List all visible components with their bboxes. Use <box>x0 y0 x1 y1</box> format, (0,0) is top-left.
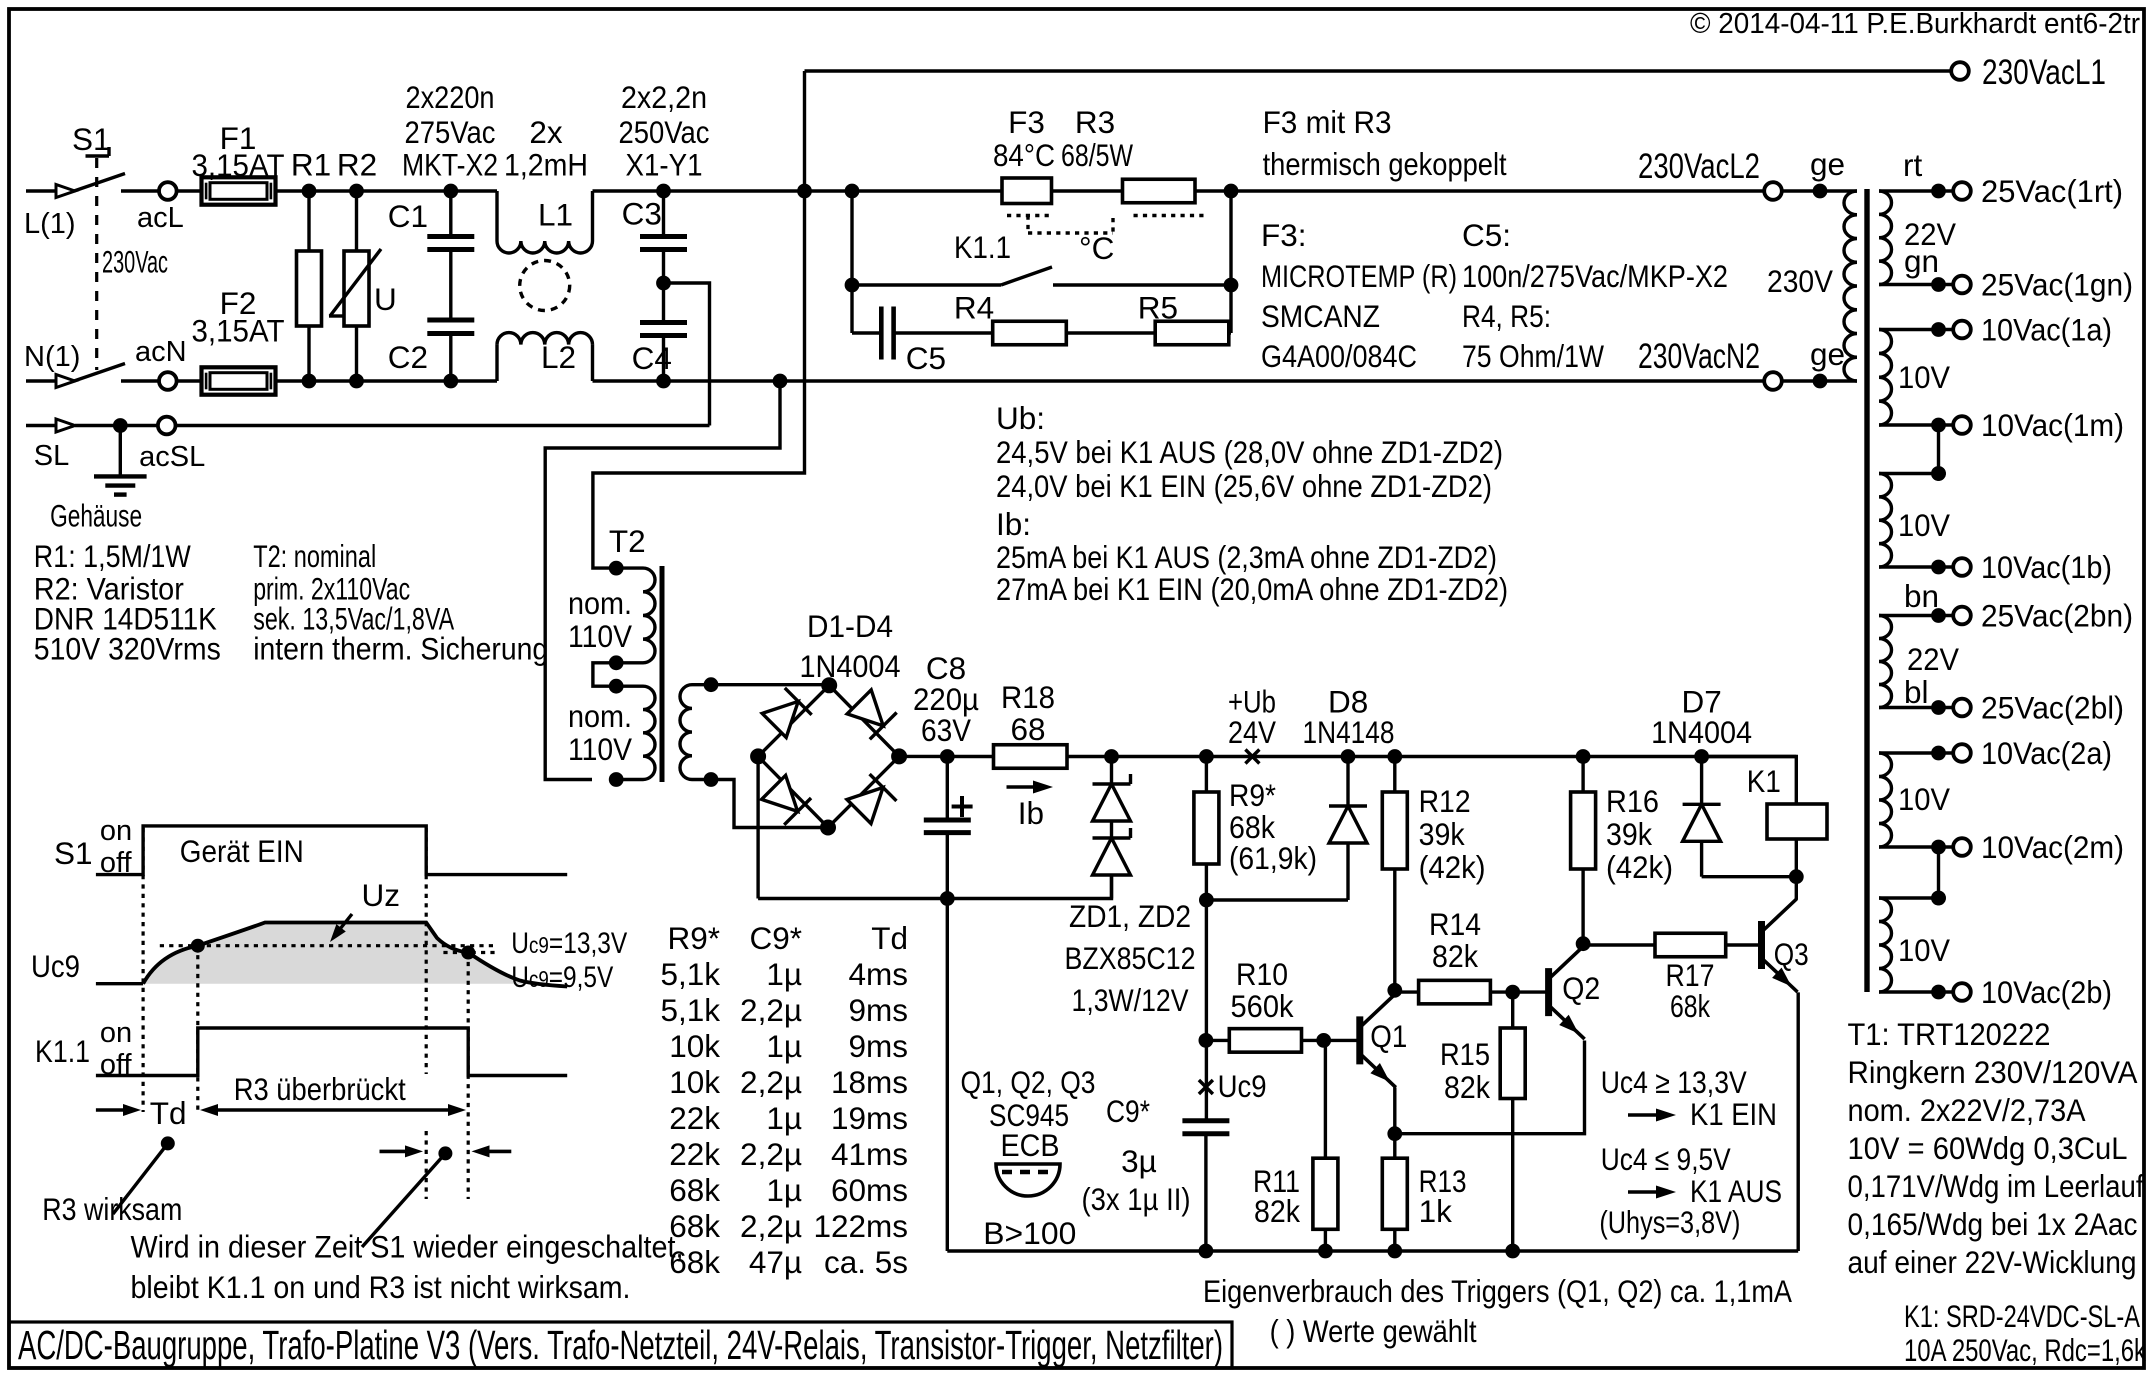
svg-text:R18: R18 <box>1001 679 1055 715</box>
svg-text:10Vac(2m): 10Vac(2m) <box>1981 829 2124 865</box>
junction R15 bottom <box>1505 1244 1520 1259</box>
svg-text:R16: R16 <box>1606 783 1659 819</box>
svg-text:R4, R5:: R4, R5: <box>1462 298 1551 334</box>
svg-text:Ib:: Ib: <box>996 506 1031 542</box>
junction R2 bottom <box>349 374 364 389</box>
wire Q2 collector up <box>1581 944 1584 948</box>
wire F1 to R1 <box>276 189 310 192</box>
svg-text:R14: R14 <box>1429 906 1481 942</box>
junction T2 sec top <box>704 677 719 692</box>
inductor L1 <box>497 191 593 253</box>
junction bridge top <box>821 677 837 693</box>
diode D7 <box>1651 684 1796 877</box>
svg-text:230Vac: 230Vac <box>102 244 168 280</box>
svg-text:D1-D4: D1-D4 <box>807 608 893 644</box>
junction K1.1 left <box>845 278 860 293</box>
svg-text:R1: R1 <box>291 146 331 182</box>
transformer T2 core <box>660 566 665 782</box>
svg-text:82k: 82k <box>1254 1193 1300 1229</box>
svg-text:10V: 10V <box>1898 359 1950 395</box>
junction T1 primary bottom <box>1813 374 1828 389</box>
wire tap 1m <box>1937 425 1940 474</box>
timing dotted guide 3b <box>425 1131 428 1199</box>
text block T2 data <box>253 538 548 667</box>
wire bridge plus to R18 <box>899 755 993 758</box>
svg-text:100n/275Vac/MKP-X2: 100n/275Vac/MKP-X2 <box>1462 258 1728 294</box>
svg-text:K1: K1 <box>1747 763 1781 799</box>
wire node A down <box>1205 900 1208 1121</box>
terminal 25Vac(1gn) <box>1953 267 2133 303</box>
svg-text:bl: bl <box>1904 674 1929 710</box>
wire F3 to R3 <box>1052 189 1123 192</box>
terminal 230VacN2 <box>1638 337 1782 390</box>
junction R10 left <box>1199 1033 1214 1048</box>
svg-text:G4A00/084C: G4A00/084C <box>1261 338 1417 374</box>
label 2x220n 275Vac MKT-X2 <box>402 79 498 182</box>
core mark dashed circle <box>520 261 570 311</box>
svg-text:25Vac(1gn): 25Vac(1gn) <box>1981 267 2133 303</box>
junction C8 bottom <box>940 891 955 906</box>
svg-text:SMCANZ: SMCANZ <box>1261 298 1380 334</box>
svg-text:K1: SRD-24VDC-SL-A: K1: SRD-24VDC-SL-A <box>1904 1298 2140 1334</box>
wire N rail to N2 terminal <box>780 379 1764 382</box>
svg-text:1N4004: 1N4004 <box>1651 714 1752 750</box>
svg-text:2,2µ: 2,2µ <box>740 1136 802 1172</box>
svg-text:82k: 82k <box>1432 938 1478 974</box>
svg-text:acSL: acSL <box>139 441 205 473</box>
resistor R13 <box>1382 1134 1466 1251</box>
junction R11 bottom <box>1318 1244 1333 1259</box>
svg-text:10Vac(1a): 10Vac(1a) <box>1981 312 2112 348</box>
svg-text:510V 320Vrms: 510V 320Vrms <box>34 631 221 667</box>
relay contact K1.1 <box>852 229 1231 285</box>
svg-text:°C: °C <box>1079 230 1114 266</box>
svg-text:10Vac(1m): 10Vac(1m) <box>1981 407 2124 443</box>
junction R1 bottom <box>302 374 317 389</box>
capacitor C2 <box>388 320 475 381</box>
transformer T2 <box>609 523 646 559</box>
transistor Q2 <box>1513 946 1601 1039</box>
svg-text:on: on <box>100 1017 132 1049</box>
svg-text:68: 68 <box>1010 711 1045 747</box>
svg-text:L1: L1 <box>538 197 573 233</box>
svg-text:nom. 2x22V/2,73A: nom. 2x22V/2,73A <box>1848 1092 2086 1128</box>
svg-text:1N4004: 1N4004 <box>800 648 901 684</box>
svg-text:F3: F3 <box>1008 104 1045 140</box>
svg-text:2,2µ: 2,2µ <box>740 1064 802 1100</box>
svg-text:18ms: 18ms <box>831 1064 908 1100</box>
svg-text:22V: 22V <box>1907 641 1959 677</box>
label Uc4 thresholds <box>1599 1064 1782 1240</box>
svg-text:C9*: C9* <box>1106 1093 1150 1129</box>
node acN <box>121 336 187 390</box>
svg-text:Uz: Uz <box>362 877 401 913</box>
svg-text:Eigenverbrauch des Triggers (Q: Eigenverbrauch des Triggers (Q1, Q2) ca.… <box>1203 1273 1792 1309</box>
svg-text:10V: 10V <box>1898 507 1950 543</box>
wire N2 terminal to T1 <box>1782 379 1820 382</box>
wire N rail to T2 primary return <box>545 381 780 780</box>
svg-text:C2: C2 <box>388 339 428 375</box>
terminal 230VacL2 <box>1638 147 1782 200</box>
svg-text:24V: 24V <box>1228 714 1276 750</box>
terminal N(1) input arrow <box>24 341 80 388</box>
svg-text:F3:: F3: <box>1261 217 1307 253</box>
wire Y-cap midpoint to chassis <box>664 283 710 426</box>
svg-text:Td: Td <box>150 1095 187 1131</box>
svg-text:3µ: 3µ <box>1121 1143 1157 1179</box>
svg-text:275Vac: 275Vac <box>405 114 496 150</box>
label C9 value <box>1082 1093 1191 1217</box>
svg-text:MICROTEMP (R): MICROTEMP (R) <box>1261 258 1457 294</box>
junction Q1 base node <box>1316 1033 1331 1048</box>
svg-text:22k: 22k <box>669 1100 720 1136</box>
junction tap 1m <box>1931 466 1946 481</box>
svg-text:Uc9=13,3V: Uc9=13,3V <box>511 927 627 960</box>
svg-text:K1 EIN: K1 EIN <box>1690 1096 1777 1132</box>
wire F2 to R1 bottom <box>276 379 310 382</box>
wire L1 to C3 <box>593 189 805 192</box>
svg-text:SL: SL <box>34 440 69 472</box>
junction K1 bottom node <box>1789 869 1804 884</box>
svg-text:BZX85C12: BZX85C12 <box>1065 940 1196 976</box>
svg-text:1,3W/12V: 1,3W/12V <box>1072 982 1189 1018</box>
junction C3 top <box>656 184 671 199</box>
junction T2 p1 top <box>609 561 624 576</box>
svg-text:1µ: 1µ <box>766 1100 802 1136</box>
svg-text:R1: 1,5M/1W: R1: 1,5M/1W <box>34 538 191 574</box>
svg-text:0,165/Wdg bei 1x 2Aac: 0,165/Wdg bei 1x 2Aac <box>1848 1206 2138 1242</box>
resistor R12 <box>1382 757 1485 991</box>
svg-text:auf einer 22V-Wicklung: auf einer 22V-Wicklung <box>1848 1244 2137 1280</box>
svg-text:K1.1: K1.1 <box>35 1033 90 1069</box>
svg-text:10Vac(2b): 10Vac(2b) <box>1981 974 2112 1010</box>
fuse F3 thermal <box>993 104 1055 204</box>
svg-text:10Vac(2a): 10Vac(2a) <box>1981 735 2112 771</box>
junction bridge bottom <box>820 820 836 836</box>
svg-text:122ms: 122ms <box>813 1208 908 1244</box>
timing threshold 9.5V <box>443 946 613 995</box>
zener diode ZD1 <box>1093 757 1131 822</box>
label C5 R4 R5 values <box>1462 217 1728 374</box>
junction C9 bottom <box>1199 1244 1214 1259</box>
timing diagram shading <box>143 923 543 984</box>
svg-text:0,171V/Wdg im Leerlauf: 0,171V/Wdg im Leerlauf <box>1848 1168 2144 1204</box>
svg-text:39k: 39k <box>1606 816 1652 852</box>
svg-text:1,2mH: 1,2mH <box>504 146 588 182</box>
terminal 10Vac(1b) <box>1953 549 2112 585</box>
label Uz with arrow <box>330 877 400 942</box>
junction N rail T2 branch <box>773 374 788 389</box>
junction K1.1 branch right <box>1224 184 1239 199</box>
text block R1 R2 varistor data <box>34 538 221 667</box>
resistor R3 <box>1061 104 1195 203</box>
svg-text:thermisch gekoppelt: thermisch gekoppelt <box>1263 146 1507 182</box>
resistor R9 <box>1194 757 1317 901</box>
label F3 MICROTEMP <box>1261 217 1457 374</box>
switch S1 <box>72 121 125 381</box>
svg-text:230VacL1: 230VacL1 <box>1982 53 2106 92</box>
wire 0V rail to zeners <box>758 874 1111 899</box>
junction T2 p2 bottom <box>609 772 624 787</box>
terminal 10Vac(2m) <box>1953 829 2124 865</box>
transformer T2 primary winding 1 <box>568 568 655 663</box>
transformer T1 winding 22V (2) <box>1879 578 1959 715</box>
varistor R2 <box>329 146 397 381</box>
terminal L(1) input arrow <box>24 185 76 241</box>
svg-text:ca. 5s: ca. 5s <box>824 1244 908 1280</box>
resistor R14 <box>1395 906 1513 1004</box>
transformer T1 winding 10V (2a-2m) <box>1879 746 1953 855</box>
svg-text:MKT-X2: MKT-X2 <box>402 146 498 182</box>
capacitor C8 <box>913 650 979 899</box>
svg-text:intern therm. Sicherung: intern therm. Sicherung <box>253 631 548 667</box>
node A R9-D8-C9 <box>1199 893 1214 908</box>
svg-text:bn: bn <box>1904 578 1939 614</box>
terminal 10Vac(1a) <box>1953 312 2112 348</box>
copyright note <box>1690 8 2140 40</box>
bridge rectifier D1-D4 <box>758 685 899 827</box>
label ZD1 ZD2 <box>1065 898 1196 1018</box>
svg-text:gn: gn <box>1904 243 1939 279</box>
svg-text:R5: R5 <box>1138 290 1178 326</box>
timing Uc9 trace <box>31 923 567 987</box>
wire Q1 collector up <box>1393 990 1396 994</box>
junction ZD1 top <box>1104 749 1119 764</box>
junction R9 top <box>1199 749 1214 764</box>
fuse F2 <box>192 285 285 395</box>
junction Q1 collector node <box>1387 983 1402 998</box>
svg-text:Gerät EIN: Gerät EIN <box>180 833 304 869</box>
diode D8 <box>1206 684 1394 900</box>
capacitor C5 <box>852 307 946 377</box>
junction Q2 base node <box>1505 985 1520 1000</box>
terminal SL input arrow <box>26 419 75 472</box>
svg-text:230VacN2: 230VacN2 <box>1638 337 1760 376</box>
terminal 10Vac(1m) <box>1953 407 2124 443</box>
timing dotted guide 4 <box>467 953 470 1200</box>
label D1-D4 1N4004 <box>800 608 901 684</box>
relay coil K1 <box>1702 757 1827 877</box>
timing dotted guide 1 <box>142 828 145 1112</box>
svg-text:Uc9: Uc9 <box>1218 1068 1267 1104</box>
timing re-close arrows <box>362 1145 511 1247</box>
resistor R18 <box>994 679 1068 768</box>
svg-text:R4: R4 <box>954 290 994 326</box>
svg-text:(42k): (42k) <box>1606 849 1673 885</box>
svg-text:Q3: Q3 <box>1774 936 1809 972</box>
wire R18 to +Ub <box>1067 755 1796 758</box>
svg-text:Ib: Ib <box>1018 795 1044 831</box>
svg-text:25mA bei K1 AUS (2,3mA ohne ZD: 25mA bei K1 AUS (2,3mA ohne ZD1-ZD2) <box>996 539 1497 575</box>
junction ground tap <box>113 418 128 433</box>
svg-text:T2: nominal: T2: nominal <box>253 538 376 574</box>
svg-text:F3 mit R3: F3 mit R3 <box>1263 104 1392 140</box>
svg-text:22k: 22k <box>669 1136 720 1172</box>
junction tap 2m <box>1931 891 1946 906</box>
junction Q2 collector node <box>1576 936 1591 951</box>
svg-text:rt: rt <box>1903 147 1922 183</box>
svg-text:68k: 68k <box>669 1172 720 1208</box>
wire 0V bottom rail <box>947 1249 1798 1252</box>
svg-text:3,15AT: 3,15AT <box>192 147 285 183</box>
svg-text:110V: 110V <box>568 618 632 654</box>
svg-text:Td: Td <box>871 920 908 956</box>
label F3 mit R3 thermisch gekoppelt <box>1263 104 1507 182</box>
svg-text:ge: ge <box>1810 336 1845 372</box>
svg-text:250Vac: 250Vac <box>619 114 710 150</box>
svg-text:R3 überbrückt: R3 überbrückt <box>234 1071 406 1107</box>
svg-text:C5: C5 <box>906 340 946 376</box>
junction D8 top <box>1341 749 1356 764</box>
svg-text:T1: TRT120222: T1: TRT120222 <box>1848 1016 2051 1052</box>
svg-text:68k: 68k <box>1670 988 1710 1024</box>
text block T1 data <box>1848 1016 2144 1280</box>
resistor R10 <box>1206 956 1324 1052</box>
capacitor C1 <box>388 191 475 320</box>
timing dotted guide 3 <box>425 828 428 1074</box>
svg-text:ZD1, ZD2: ZD1, ZD2 <box>1069 898 1191 934</box>
text Eigenverbrauch <box>1203 1273 1792 1349</box>
terminal 25Vac(2bn) <box>1953 598 2133 634</box>
wire to 230VacL1 <box>805 71 1952 191</box>
svg-text:41ms: 41ms <box>831 1136 908 1172</box>
resistor R4 <box>894 290 1067 345</box>
junction K1.1 branch top <box>845 184 860 199</box>
svg-text:N(1): N(1) <box>24 341 80 373</box>
label Q1 Q2 Q3 SC945 <box>961 1064 1096 1163</box>
node acSL <box>139 417 709 473</box>
svg-text:230VacL2: 230VacL2 <box>1638 147 1760 186</box>
thermal coupling dotted link <box>1007 216 1204 267</box>
svg-text:68/5W: 68/5W <box>1061 137 1133 173</box>
svg-text:K1.1: K1.1 <box>954 229 1011 265</box>
svg-text:10V = 60Wdg 0,3CuL: 10V = 60Wdg 0,3CuL <box>1848 1130 2128 1166</box>
ground chassis symbol <box>50 426 147 534</box>
svg-text:63V: 63V <box>921 712 971 748</box>
svg-text:X1-Y1: X1-Y1 <box>626 146 703 182</box>
transformer T1 winding 10V (2m-2b) <box>1879 891 1953 1000</box>
svg-text:R3 wirksam: R3 wirksam <box>42 1191 182 1227</box>
svg-text:1µ: 1µ <box>766 1028 802 1064</box>
text block Ub values <box>996 400 1503 504</box>
timing threshold 13.3V <box>160 927 628 960</box>
junction T2 sec bottom <box>704 772 719 787</box>
node C3-C4 midpoint <box>656 276 671 291</box>
svg-text:B>100: B>100 <box>983 1215 1076 1251</box>
svg-text:47µ: 47µ <box>749 1244 802 1280</box>
svg-text:110V: 110V <box>568 731 632 767</box>
timing S1 trace <box>54 815 567 879</box>
svg-text:C3: C3 <box>622 196 662 232</box>
svg-text:Uc9: Uc9 <box>31 948 80 984</box>
svg-text:60ms: 60ms <box>831 1172 908 1208</box>
svg-text:84°C: 84°C <box>993 137 1055 173</box>
wire L rail F1..C1 <box>309 189 497 192</box>
svg-text:( ) Werte gewählt: ( ) Werte gewählt <box>1270 1313 1477 1349</box>
text block K1 data <box>1904 1298 2146 1368</box>
text block Ib values <box>996 506 1508 607</box>
svg-text:on: on <box>100 815 132 847</box>
svg-text:4ms: 4ms <box>848 956 908 992</box>
wire 0V to bottom rail <box>946 899 949 1252</box>
wire acN to F2 <box>177 379 202 382</box>
svg-text:19ms: 19ms <box>831 1100 908 1136</box>
junction T2 p1 bottom <box>609 655 624 670</box>
svg-text:© 2014-04-11 P.E.Burkhardt ent: © 2014-04-11 P.E.Burkhardt ent6-2tr <box>1690 8 2140 40</box>
timing dotted guide 2 <box>196 946 199 1112</box>
svg-text:Uc4 ≤ 9,5V: Uc4 ≤ 9,5V <box>1601 1141 1731 1177</box>
junction C8 top <box>940 749 955 764</box>
svg-text:75 Ohm/1W: 75 Ohm/1W <box>1462 338 1604 374</box>
junction L rail riser <box>797 184 812 199</box>
svg-text:C1: C1 <box>388 198 428 234</box>
capacitor C3 <box>622 191 687 283</box>
svg-text:(3x 1µ II): (3x 1µ II) <box>1082 1181 1191 1217</box>
transformer T1 winding 22V (1) <box>1879 147 1956 292</box>
junction bridge right <box>891 748 907 764</box>
wire Q3 collector <box>1795 877 1798 900</box>
junction T2 p2 top <box>609 679 624 694</box>
junction K1.1 right <box>1224 278 1239 293</box>
svg-text:nom.: nom. <box>568 698 632 734</box>
svg-text:ge: ge <box>1810 146 1845 182</box>
svg-text:AC/DC-Baugruppe, Trafo-Platine: AC/DC-Baugruppe, Trafo-Platine V3 (Vers.… <box>18 1322 1223 1368</box>
junction C4 bottom <box>656 374 671 389</box>
svg-text:Ub:: Ub: <box>996 400 1045 436</box>
terminal 25Vac(2bl) <box>1953 690 2124 726</box>
callout R3 wirksam <box>42 1136 182 1227</box>
junction C1 top <box>443 184 458 199</box>
wire L2 terminal to T1 <box>1782 189 1820 192</box>
wire Q1 emitter down <box>1393 1087 1396 1133</box>
svg-text:acN: acN <box>135 336 187 368</box>
svg-text:S1: S1 <box>54 835 93 871</box>
transformer T1 primary winding <box>1767 191 1857 381</box>
wire right branch vertical <box>1229 191 1232 333</box>
zener diode ZD2 <box>1093 821 1131 899</box>
svg-text:5,1k: 5,1k <box>660 992 720 1028</box>
svg-text:1µ: 1µ <box>766 1172 802 1208</box>
svg-text:C9*: C9* <box>749 920 802 956</box>
resistor R5 <box>1066 290 1231 345</box>
svg-text:2,2µ: 2,2µ <box>740 992 802 1028</box>
svg-text:Uc4 ≥ 13,3V: Uc4 ≥ 13,3V <box>1601 1064 1747 1100</box>
terminal 25Vac(1rt) <box>1953 173 2123 209</box>
svg-text:2,2µ: 2,2µ <box>740 1208 802 1244</box>
svg-text:T2: T2 <box>609 523 646 559</box>
resistor R1 <box>291 146 331 381</box>
svg-text:Q1: Q1 <box>1370 1018 1407 1054</box>
transformer T1 winding 10V (1m-1b) <box>1879 466 1953 574</box>
svg-text:U: U <box>374 281 397 317</box>
svg-text:5,1k: 5,1k <box>660 956 720 992</box>
transformer T2 secondary winding <box>680 685 711 780</box>
timing Td arrow <box>96 1095 187 1131</box>
title box <box>9 1322 1232 1368</box>
terminal 230VacL1 <box>1951 53 2106 92</box>
svg-text:25Vac(2bl): 25Vac(2bl) <box>1981 690 2124 726</box>
junction T1 primary top <box>1813 184 1828 199</box>
svg-text:Q1, Q2, Q3: Q1, Q2, Q3 <box>961 1064 1096 1100</box>
junction C2 bottom <box>443 374 458 389</box>
wire T2 series link <box>593 663 616 686</box>
svg-text:R2: R2 <box>337 146 377 182</box>
table R9 C9 Td <box>660 920 908 1280</box>
svg-text:R12: R12 <box>1419 783 1471 819</box>
junction R12 top <box>1387 749 1402 764</box>
svg-text:10V: 10V <box>1898 781 1950 817</box>
wire SL line <box>75 424 159 427</box>
